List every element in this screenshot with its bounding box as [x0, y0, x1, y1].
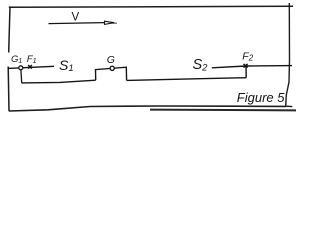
frame right [286, 3, 293, 107]
wire lower-left segment [22, 80, 96, 83]
svg-text:Figure 5: Figure 5 [237, 90, 285, 105]
svg-text:G: G [107, 54, 115, 66]
svg-text:V: V [72, 12, 80, 24]
svg-text:S1: S1 [59, 57, 74, 74]
wire S2 to right border segment [212, 66, 292, 68]
frame left [9, 6, 10, 52]
wire G raised segment [96, 67, 127, 80]
svg-text:F1: F1 [27, 54, 37, 65]
velocity arrow [49, 21, 118, 24]
wire lower-right segment [127, 78, 247, 81]
svg-text:S2: S2 [193, 57, 209, 74]
frame bottom second stroke [150, 109, 296, 112]
frame bottom [9, 106, 286, 111]
node F2 x mark [244, 64, 248, 68]
node G1 circle [19, 66, 23, 70]
wire G1 vertical drop [20, 70, 23, 83]
node F1 x mark [28, 65, 32, 69]
wire F2 vertical riser [245, 66, 247, 78]
frame top [9, 6, 293, 7]
node G circle [110, 66, 114, 70]
wire upper-left segment [8, 66, 54, 68]
svg-text:F2: F2 [242, 51, 253, 63]
svg-text:G1: G1 [11, 54, 22, 65]
